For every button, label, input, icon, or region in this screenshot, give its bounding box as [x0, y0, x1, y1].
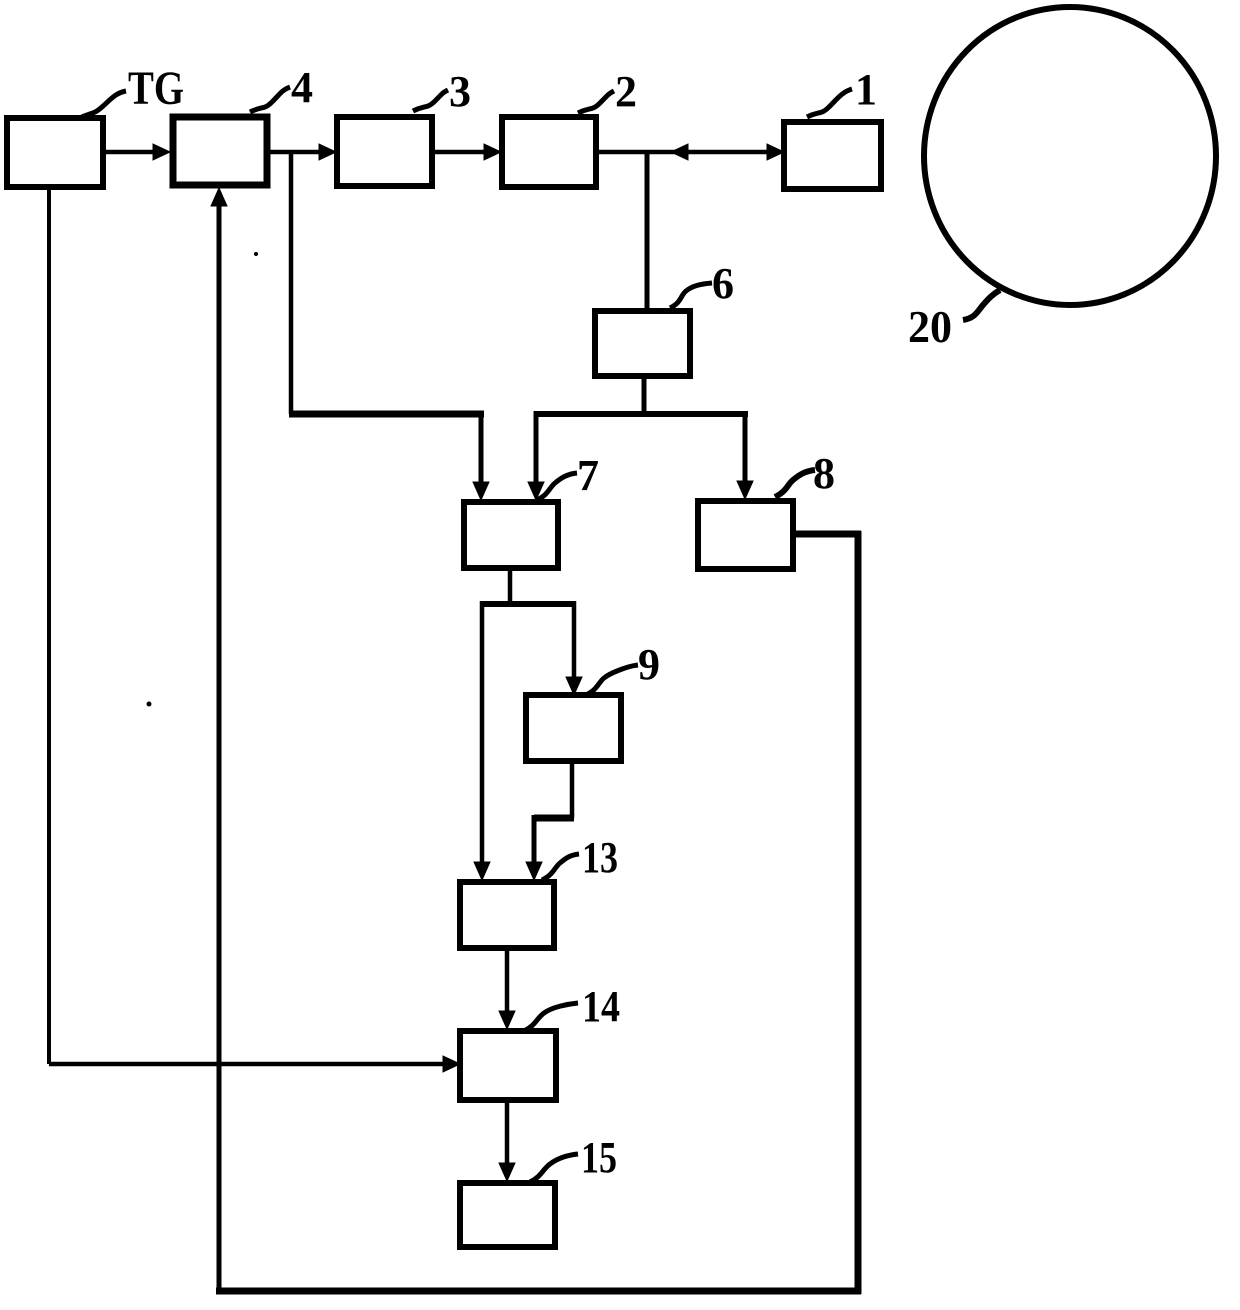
- wire 7 bottom stub: [508, 568, 513, 604]
- splitter horizontal under 7: [482, 601, 576, 607]
- box 4: [173, 117, 267, 185]
- wire TG down left side: [47, 185, 51, 1064]
- wire horizontal to 14: [49, 1062, 452, 1067]
- box 6: [595, 311, 690, 376]
- leader 13: [542, 854, 579, 880]
- leader 14: [524, 1003, 578, 1031]
- label 9: [638, 640, 660, 689]
- box 8: [698, 501, 793, 569]
- leader 8: [775, 470, 815, 497]
- svg-text:2: 2: [615, 67, 637, 116]
- leader 4: [250, 87, 290, 112]
- arrowhead into 14 left: [443, 1056, 460, 1072]
- wire 8 right to feedback: [793, 531, 861, 538]
- bus B drop into 8: [743, 411, 748, 485]
- wire 4 to 3 with junction: [267, 150, 328, 155]
- bus B horizontal: [536, 411, 748, 417]
- svg-text:1: 1: [855, 65, 877, 114]
- arrowhead into 14 top: [499, 1011, 515, 1029]
- jog horizontal under 9: [534, 815, 574, 822]
- label 4: [291, 63, 313, 112]
- arrowhead up into 4: [211, 188, 227, 206]
- wire 6 bottom to bus: [642, 376, 647, 414]
- bus A drop into 7: [479, 411, 484, 486]
- wire 3 to 2: [432, 150, 493, 155]
- label 6: [712, 259, 734, 308]
- arrowhead into 7 left: [473, 482, 489, 500]
- svg-text:8: 8: [813, 449, 835, 498]
- arrowhead pointing left toward 2: [671, 144, 688, 160]
- box 15: [460, 1183, 555, 1247]
- box 2: [502, 117, 596, 187]
- feedback bottom horizontal: [216, 1288, 861, 1295]
- speck dot upper: [254, 252, 258, 256]
- svg-text:TG: TG: [128, 62, 184, 115]
- arrowhead into 13 left: [474, 862, 490, 880]
- arrowhead into 8: [737, 481, 753, 499]
- feedback vertical left up to 4: [217, 202, 222, 1294]
- box 3: [337, 117, 432, 186]
- box 9: [526, 695, 621, 761]
- label 3: [449, 67, 471, 116]
- wire junction down to 6: [645, 152, 650, 311]
- wire 9 bottom: [570, 761, 575, 818]
- wire TG to 4: [103, 150, 162, 155]
- svg-text:20: 20: [908, 301, 952, 352]
- long vertical to 13: [480, 601, 485, 866]
- label 1: [855, 65, 877, 114]
- leader 3: [413, 90, 448, 111]
- arrowhead into 9: [566, 677, 582, 695]
- wire junction right of 4 down to bus A: [289, 152, 294, 414]
- box 13: [460, 882, 554, 948]
- box 1: [784, 122, 881, 189]
- label 15: [581, 1133, 617, 1182]
- svg-text:13: 13: [582, 833, 618, 882]
- leader 15: [530, 1154, 578, 1182]
- wire 2 to 1: [596, 150, 778, 155]
- svg-text:6: 6: [712, 259, 734, 308]
- leader 9: [586, 665, 638, 695]
- arrowhead into 4: [153, 144, 170, 160]
- svg-text:14: 14: [582, 982, 620, 1031]
- label TG: [128, 62, 184, 115]
- speck dot lower: [147, 702, 152, 707]
- label 2: [615, 67, 637, 116]
- leader 6: [670, 283, 712, 308]
- leader TG: [78, 91, 126, 119]
- label 8: [813, 449, 835, 498]
- svg-text:7: 7: [577, 451, 599, 500]
- arrowhead into 3: [319, 144, 336, 160]
- svg-text:15: 15: [581, 1133, 617, 1182]
- circle 20: [924, 7, 1216, 305]
- wire 13 to 14: [505, 948, 510, 1015]
- label 14: [582, 982, 620, 1031]
- svg-text:3: 3: [449, 67, 471, 116]
- wire 14 to 15: [505, 1100, 510, 1167]
- leader 1: [807, 89, 852, 117]
- label 20: [908, 301, 952, 352]
- label 13: [582, 833, 618, 882]
- box 7: [464, 502, 558, 568]
- vertical into 9: [572, 601, 577, 681]
- leader 2: [578, 91, 614, 113]
- arrowhead into 1: [767, 144, 784, 160]
- arrowhead into 2: [484, 144, 501, 160]
- svg-text:4: 4: [291, 63, 313, 112]
- arrowhead into 7 right: [528, 482, 544, 500]
- bus A horizontal: [289, 411, 484, 418]
- feedback vertical right side: [855, 531, 862, 1294]
- leader 7: [537, 473, 577, 500]
- bus B drop into 7: [534, 411, 539, 486]
- svg-text:9: 9: [638, 640, 660, 689]
- arrowhead into 15 top: [499, 1163, 515, 1181]
- arrowhead into 13 right: [526, 862, 542, 880]
- leader 20: [963, 290, 1000, 320]
- box TG: [7, 118, 103, 187]
- label 7: [577, 451, 599, 500]
- vertical jog into 13: [532, 815, 537, 866]
- box 14: [460, 1031, 556, 1100]
